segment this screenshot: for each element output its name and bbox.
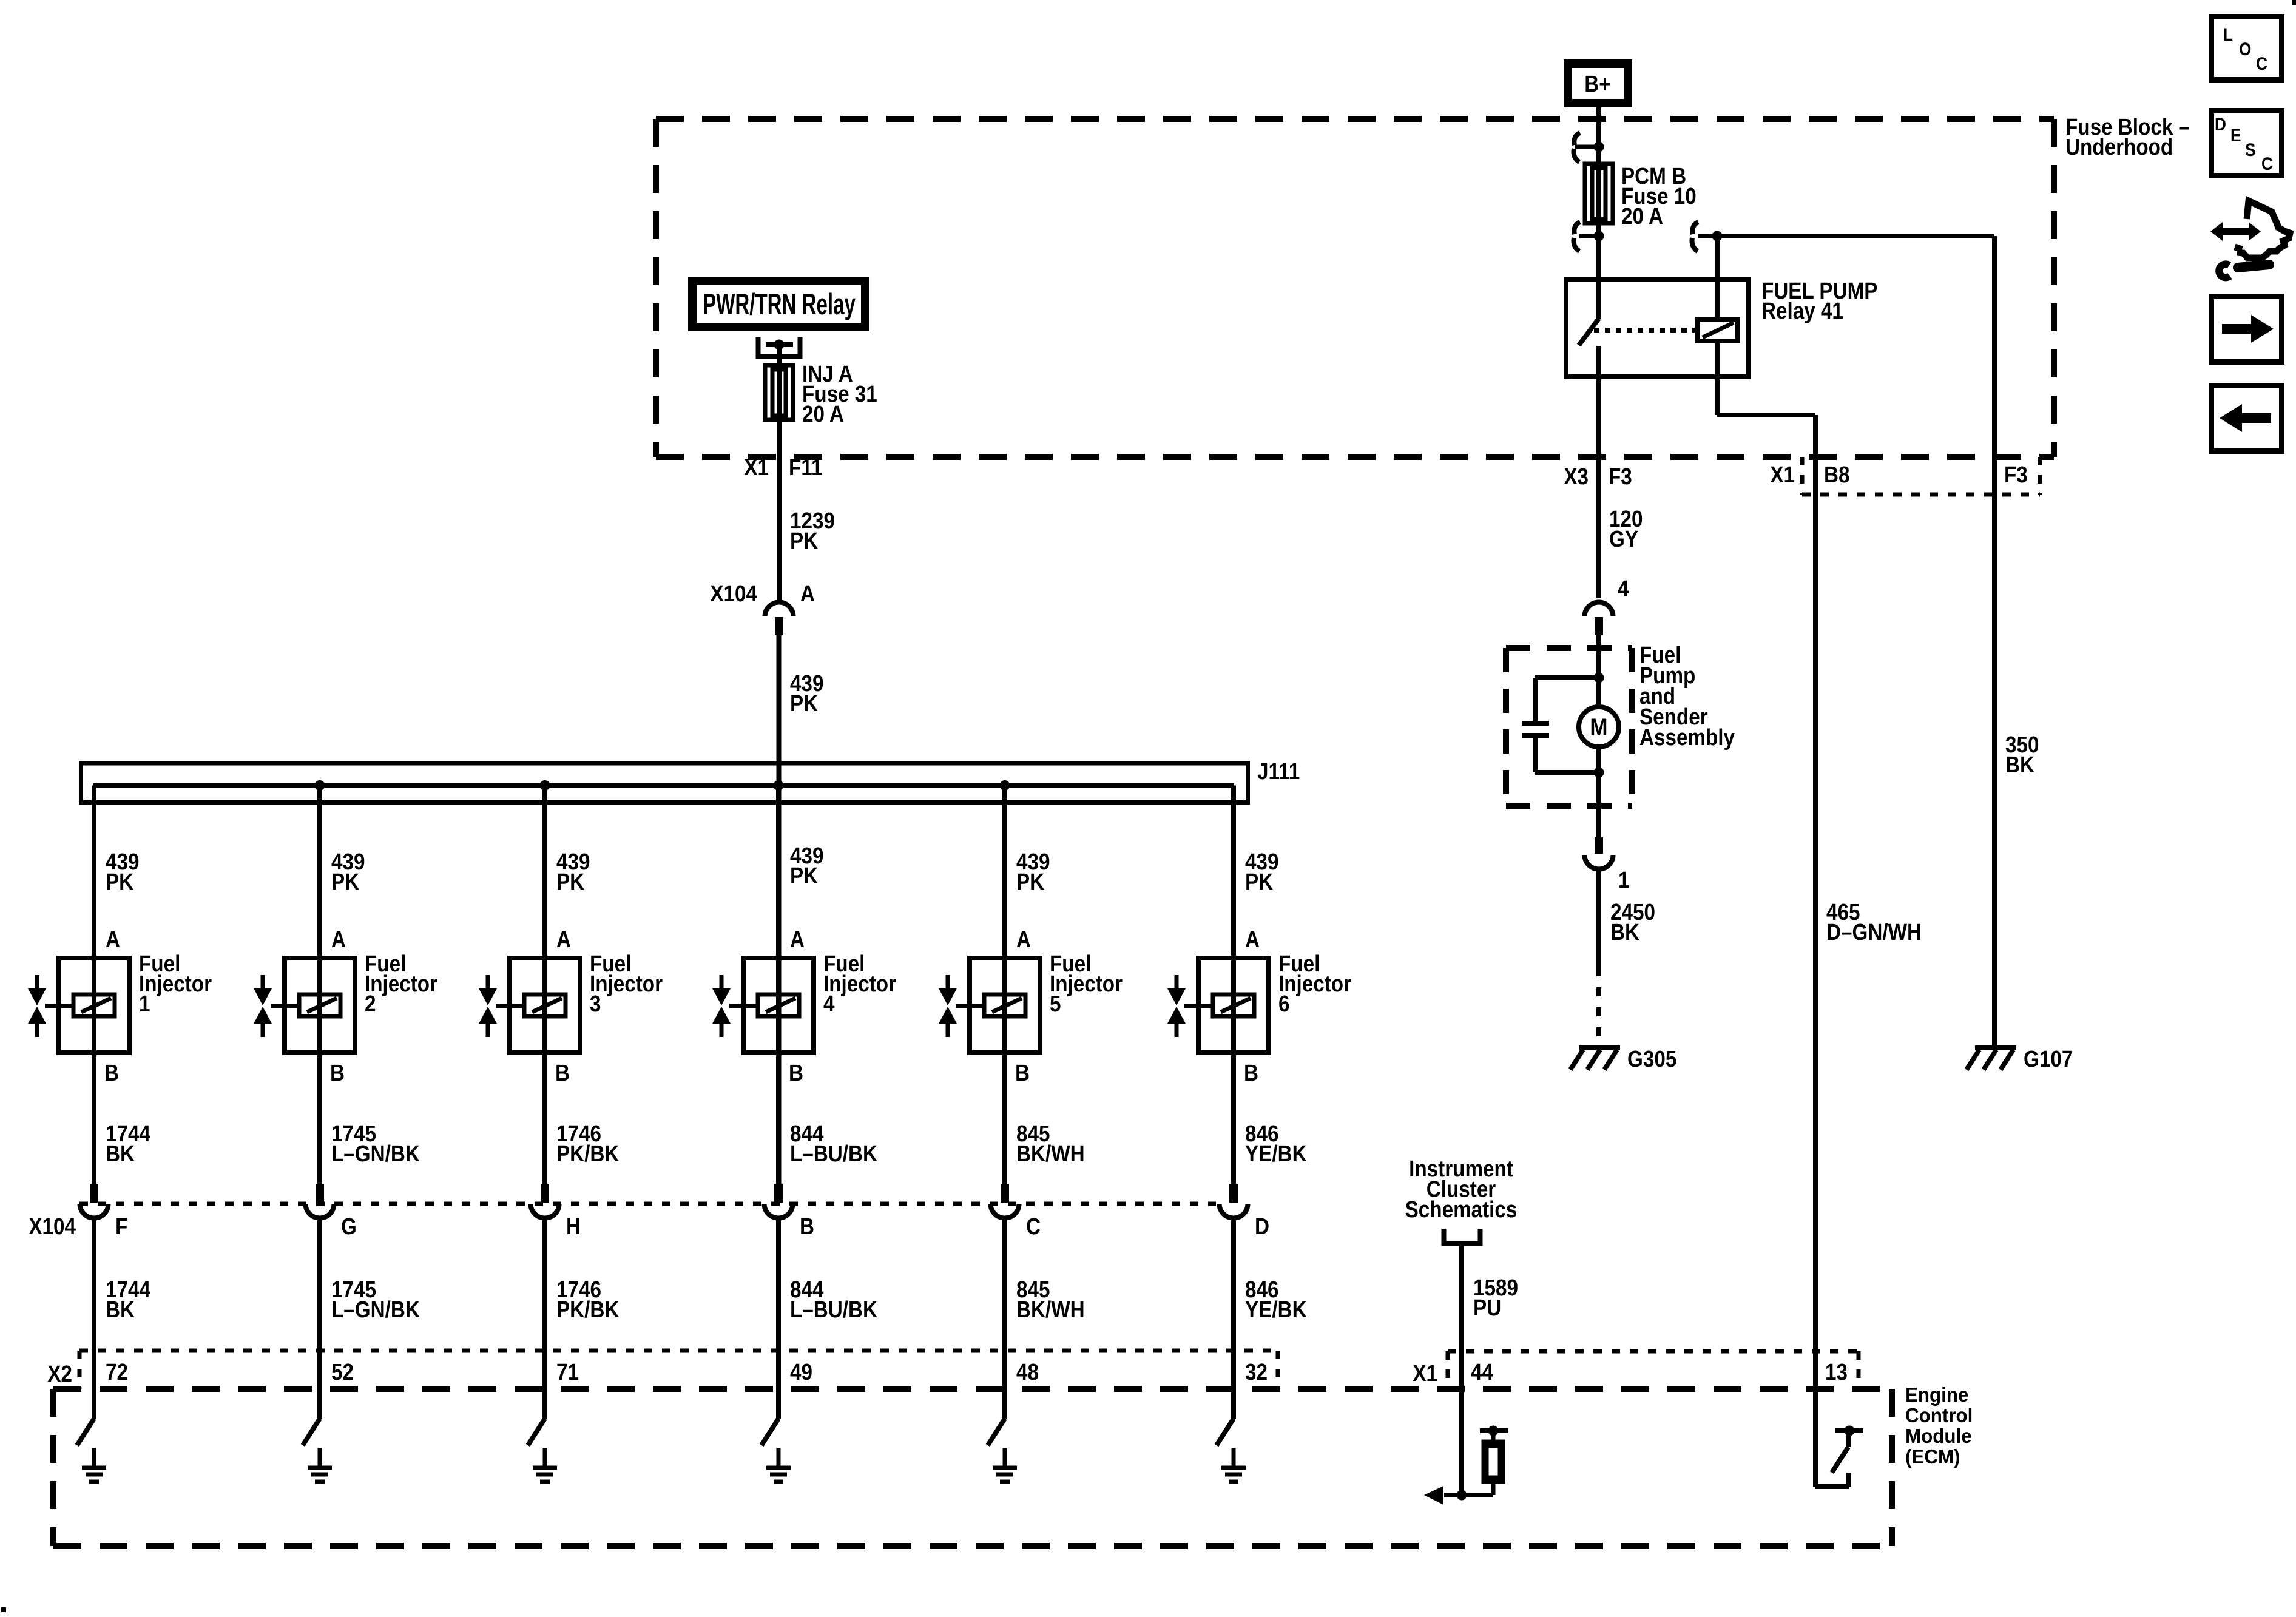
svg-text:1: 1 bbox=[139, 991, 150, 1017]
fuel injector 3 nozzle valve bbox=[479, 975, 524, 1037]
svg-text:YE/BK: YE/BK bbox=[1245, 1141, 1307, 1167]
ground G107 bbox=[1967, 1046, 2073, 1072]
connector X104 pin C bbox=[991, 1184, 1019, 1218]
svg-text:C: C bbox=[2261, 153, 2273, 174]
wire resistor to node bbox=[1462, 1493, 1493, 1497]
relay socket bracket bbox=[758, 337, 800, 357]
svg-text:A: A bbox=[556, 927, 571, 953]
svg-text:B: B bbox=[789, 1060, 803, 1086]
wire relay to INJ A fuse bbox=[777, 345, 782, 457]
node J111 tap injector 5 bbox=[1000, 780, 1010, 791]
svg-text:52: 52 bbox=[331, 1359, 354, 1385]
fuel injector 5 nozzle valve bbox=[939, 975, 984, 1037]
svg-text:J111: J111 bbox=[1257, 758, 1300, 785]
engine control module dashed box bbox=[53, 1389, 1892, 1546]
wire 1239 PK bbox=[777, 457, 782, 602]
svg-text:Underhood: Underhood bbox=[2065, 134, 2173, 160]
fuel injector 6 coil bbox=[1213, 994, 1254, 1016]
svg-text:L: L bbox=[2223, 24, 2233, 44]
svg-text:L–GN/BK: L–GN/BK bbox=[331, 1297, 420, 1323]
wire pump feed bbox=[1596, 635, 1601, 707]
fuel pump and sender assembly dashed box bbox=[1506, 648, 1632, 806]
relay socket stub and node bbox=[766, 340, 793, 350]
svg-text:PK: PK bbox=[790, 690, 818, 717]
svg-text:5: 5 bbox=[1050, 991, 1061, 1017]
svg-text:6: 6 bbox=[1278, 991, 1289, 1017]
wire 1589 PU bbox=[1459, 1243, 1464, 1495]
svg-text:44: 44 bbox=[1471, 1359, 1493, 1385]
wire 1746 lower injector 3 bbox=[542, 1218, 547, 1419]
relay 41 coil top pin wire bbox=[1715, 236, 1720, 319]
page mark top right bbox=[2292, 0, 2296, 5]
svg-text:G305: G305 bbox=[1627, 1046, 1676, 1072]
svg-text:4: 4 bbox=[1618, 576, 1629, 602]
svg-text:F: F bbox=[115, 1214, 127, 1240]
connector label X104 A bbox=[710, 581, 815, 607]
fuel injector 5 box bbox=[970, 958, 1040, 1053]
svg-text:72: 72 bbox=[106, 1359, 128, 1385]
node pump bottom junction bbox=[1594, 768, 1604, 778]
svg-text:48: 48 bbox=[1016, 1359, 1039, 1385]
svg-text:20 A: 20 A bbox=[802, 401, 844, 427]
svg-text:PK: PK bbox=[106, 869, 133, 895]
fuel injector 1 nozzle valve bbox=[28, 975, 73, 1037]
svg-text:F11: F11 bbox=[789, 454, 822, 481]
X1 connector dotted box under fuse block bbox=[1802, 457, 2040, 495]
fuel injector 3 coil bbox=[524, 994, 566, 1016]
svg-text:PK: PK bbox=[790, 863, 818, 889]
capacitor plates bbox=[1522, 723, 1549, 735]
capacitor branch wires bbox=[1535, 678, 1599, 772]
fuel injector 4 box bbox=[743, 958, 814, 1053]
PWR/TRN Relay label box bbox=[692, 281, 865, 327]
svg-text:PK: PK bbox=[331, 869, 359, 895]
svg-text:F3: F3 bbox=[2004, 462, 2028, 488]
svg-text:G107: G107 bbox=[2024, 1046, 2073, 1072]
svg-text:GY: GY bbox=[1609, 526, 1638, 552]
svg-text:D: D bbox=[1255, 1214, 1269, 1240]
svg-text:B: B bbox=[104, 1060, 119, 1086]
wire 439 PK injector 1 bbox=[92, 786, 96, 1184]
splice pack J111 outer box bbox=[81, 763, 1248, 803]
svg-text:F3: F3 bbox=[1609, 464, 1632, 490]
connector label X1 F11 bbox=[744, 454, 822, 481]
svg-text:A: A bbox=[800, 581, 815, 607]
connector terminal at PCM B fuse top bbox=[1573, 133, 1604, 162]
svg-text:X1: X1 bbox=[1413, 1360, 1437, 1386]
wire 844 lower injector 4 bbox=[776, 1218, 781, 1419]
node J111 tap injector 2 bbox=[315, 780, 325, 791]
back arrow icon bbox=[2212, 386, 2282, 451]
node J111 tap injector 4 bbox=[774, 780, 784, 791]
fuel injector 2 nozzle valve bbox=[254, 975, 299, 1037]
node J111 tap injector 3 bbox=[540, 780, 550, 791]
connector X104 pin H bbox=[531, 1184, 559, 1218]
svg-text:PK/BK: PK/BK bbox=[556, 1297, 620, 1323]
ECM ground injector 4 bbox=[777, 1448, 781, 1467]
arrow to instrument cluster bbox=[1424, 1486, 1462, 1505]
svg-text:B8: B8 bbox=[1824, 462, 1849, 488]
svg-text:X104: X104 bbox=[29, 1214, 76, 1240]
ECM driver switch pin 13 bbox=[1815, 1426, 1863, 1487]
wire pump return bbox=[1596, 748, 1601, 837]
svg-text:A: A bbox=[1016, 927, 1031, 953]
svg-text:B: B bbox=[330, 1060, 345, 1086]
connector X104 pin G bbox=[306, 1184, 334, 1218]
svg-text:Relay 41: Relay 41 bbox=[1761, 298, 1843, 324]
svg-text:PK: PK bbox=[1245, 869, 1273, 895]
fuel injector 2 coil bbox=[299, 994, 340, 1016]
svg-text:B+: B+ bbox=[1584, 71, 1610, 97]
fuel injector 5 coil bbox=[984, 994, 1025, 1016]
wire B+ to PCM B fuse bbox=[1596, 107, 1601, 319]
svg-text:PWR/TRN Relay: PWR/TRN Relay bbox=[703, 287, 856, 320]
wire 439 PK injector 6 bbox=[1231, 786, 1236, 1184]
svg-text:BK: BK bbox=[2005, 752, 2034, 778]
svg-text:BK: BK bbox=[106, 1297, 135, 1323]
wire 350 BK to G107 bbox=[1992, 236, 1997, 1046]
svg-text:BK/WH: BK/WH bbox=[1016, 1297, 1085, 1323]
fuel injector 4 coil bbox=[758, 994, 799, 1016]
fuse block underhood dashed box bbox=[656, 119, 2054, 457]
svg-text:Engine: Engine bbox=[1905, 1383, 1968, 1406]
ECM ground injector 5 bbox=[1003, 1448, 1007, 1467]
svg-text:49: 49 bbox=[790, 1359, 812, 1385]
wire 1744 lower injector 1 bbox=[92, 1218, 96, 1419]
svg-text:X104: X104 bbox=[710, 581, 757, 607]
fuel injector 3 box bbox=[510, 958, 580, 1053]
svg-text:L–BU/BK: L–BU/BK bbox=[790, 1141, 877, 1167]
wire 2450 BK to G305 bbox=[1596, 869, 1601, 1046]
wire relay to 350 BK drop bbox=[1717, 234, 1994, 238]
svg-text:Module: Module bbox=[1905, 1425, 1972, 1447]
svg-text:H: H bbox=[566, 1214, 581, 1240]
svg-text:L–BU/BK: L–BU/BK bbox=[790, 1297, 877, 1323]
wire 439 PK feed to J111 bbox=[777, 635, 782, 1184]
svg-text:X3: X3 bbox=[1564, 464, 1589, 490]
fuel injector 1 box bbox=[59, 958, 129, 1053]
relay 41 actuation dashed link bbox=[1594, 328, 1696, 333]
svg-text:C: C bbox=[1026, 1214, 1041, 1240]
fuel injector 1 coil bbox=[73, 994, 115, 1016]
svg-text:C: C bbox=[2256, 53, 2267, 73]
fuel injector 2 box bbox=[285, 958, 355, 1053]
svg-text:S: S bbox=[2245, 139, 2256, 160]
svg-text:20 A: 20 A bbox=[1621, 203, 1663, 229]
svg-text:YE/BK: YE/BK bbox=[1245, 1297, 1307, 1323]
relay 41 switch blade bbox=[1579, 319, 1599, 345]
wire 439 PK injector 5 bbox=[1002, 786, 1007, 1184]
svg-text:B: B bbox=[1244, 1060, 1258, 1086]
svg-text:A: A bbox=[1245, 927, 1260, 953]
svg-text:2: 2 bbox=[365, 991, 376, 1017]
ECM driver switch injector 3 bbox=[528, 1419, 545, 1445]
svg-text:PK: PK bbox=[1016, 869, 1044, 895]
splice pack J111 bus bar bbox=[93, 783, 1234, 788]
wire 439 PK injector 4 bbox=[776, 786, 781, 1184]
ECM driver switch injector 2 bbox=[303, 1419, 320, 1445]
connector terminal at relay coil pin bbox=[1692, 222, 1722, 251]
svg-text:D–GN/WH: D–GN/WH bbox=[1826, 919, 1922, 945]
svg-text:PK: PK bbox=[790, 528, 818, 554]
ECM ground injector 6 bbox=[1232, 1448, 1236, 1467]
svg-text:A: A bbox=[106, 927, 120, 953]
motor M fuel pump bbox=[1579, 707, 1619, 747]
svg-text:PK: PK bbox=[556, 869, 584, 895]
svg-text:B: B bbox=[1015, 1060, 1030, 1086]
svg-text:A: A bbox=[331, 927, 346, 953]
ECM internal resistor bbox=[1480, 1426, 1508, 1496]
svg-text:13: 13 bbox=[1825, 1359, 1848, 1385]
node pump top junction bbox=[1594, 673, 1604, 683]
fuse INJ A Fuse 31 20A bbox=[765, 365, 793, 420]
wire 439 PK injector 2 bbox=[317, 786, 322, 1184]
svg-text:D: D bbox=[2215, 113, 2226, 134]
svg-text:Assembly: Assembly bbox=[1639, 724, 1735, 751]
DESC reference icon bbox=[2212, 111, 2282, 176]
connector pin 1 fuel pump bbox=[1585, 837, 1630, 893]
svg-text:4: 4 bbox=[823, 991, 835, 1017]
ground G305 bbox=[1570, 1046, 1676, 1072]
svg-text:71: 71 bbox=[556, 1359, 579, 1385]
svg-text:A: A bbox=[790, 927, 805, 953]
svg-text:L–GN/BK: L–GN/BK bbox=[331, 1141, 420, 1167]
connector label X3 F3 bbox=[1564, 464, 1632, 490]
svg-text:Control: Control bbox=[1905, 1404, 1973, 1426]
svg-text:B: B bbox=[555, 1060, 570, 1086]
wire 439 PK injector 3 bbox=[542, 786, 547, 1184]
connector X1 dotted line ECM bbox=[1448, 1351, 1859, 1389]
ECM driver switch injector 5 bbox=[988, 1419, 1005, 1445]
svg-text:M: M bbox=[1590, 714, 1607, 741]
relay 41 coil bbox=[1697, 319, 1738, 341]
svg-text:G: G bbox=[341, 1214, 357, 1240]
ECM driver switch injector 4 bbox=[761, 1419, 778, 1445]
ECM driver switch injector 1 bbox=[77, 1419, 94, 1445]
svg-text:BK: BK bbox=[106, 1141, 135, 1167]
svg-text:Schematics: Schematics bbox=[1405, 1197, 1518, 1223]
wire 846 lower injector 6 bbox=[1231, 1218, 1236, 1419]
off-page connector bracket bbox=[1444, 1229, 1481, 1244]
connector X104 pin B bbox=[765, 1184, 793, 1218]
wire 845 lower injector 5 bbox=[1002, 1218, 1007, 1419]
svg-text:32: 32 bbox=[1245, 1359, 1268, 1385]
page mark bottom left bbox=[1, 1607, 6, 1612]
ECM ground injector 1 bbox=[92, 1448, 96, 1467]
connector X104 pin F bbox=[80, 1184, 109, 1218]
svg-text:(ECM): (ECM) bbox=[1905, 1445, 1960, 1468]
svg-text:O: O bbox=[2239, 38, 2251, 59]
svg-text:PK/BK: PK/BK bbox=[556, 1141, 620, 1167]
fuel injector 6 box bbox=[1198, 958, 1269, 1053]
connector X2 dotted line bbox=[79, 1351, 1278, 1389]
wire 1745 lower injector 2 bbox=[317, 1218, 322, 1419]
fuel injector 4 nozzle valve bbox=[712, 975, 758, 1037]
connector terminal at PCM B fuse bottom bbox=[1573, 222, 1604, 251]
svg-text:3: 3 bbox=[590, 991, 601, 1017]
svg-text:BK/WH: BK/WH bbox=[1016, 1141, 1085, 1167]
svg-text:PU: PU bbox=[1473, 1295, 1501, 1321]
ECM driver switch injector 6 bbox=[1217, 1419, 1234, 1445]
connector X104 dotted line bbox=[79, 1202, 1216, 1206]
svg-text:E: E bbox=[2230, 124, 2241, 145]
connector label X1 B8 bbox=[1770, 462, 1849, 488]
LOC reference icon bbox=[2212, 17, 2282, 80]
svg-text:X1: X1 bbox=[744, 454, 769, 481]
svg-text:BK: BK bbox=[1610, 919, 1639, 945]
relay 41 coil bottom pin wire to ECM pin 13 bbox=[1717, 341, 1815, 1487]
battery B+ symbol bbox=[1568, 64, 1628, 103]
forward arrow icon bbox=[2212, 297, 2282, 362]
ECM ground injector 3 bbox=[543, 1448, 547, 1467]
connector X104 pin D bbox=[1220, 1184, 1248, 1218]
svg-text:1: 1 bbox=[1618, 867, 1629, 893]
fuel injector 6 nozzle valve bbox=[1167, 975, 1213, 1037]
ECM ground injector 2 bbox=[318, 1448, 322, 1467]
connector X104 pin A bbox=[765, 603, 794, 635]
relay FUEL PUMP Relay 41 box bbox=[1566, 279, 1748, 377]
adjust hand tool icon bbox=[2210, 201, 2290, 277]
svg-text:X2: X2 bbox=[47, 1361, 72, 1387]
relay 41 switch output wire 120 GY bbox=[1596, 346, 1601, 598]
svg-text:X1: X1 bbox=[1770, 462, 1795, 488]
fuse PCM B Fuse 10 20A bbox=[1585, 164, 1613, 223]
svg-text:B: B bbox=[800, 1214, 814, 1240]
connector pin 4 fuel pump bbox=[1585, 576, 1629, 635]
node 1589 junction bbox=[1457, 1490, 1467, 1501]
